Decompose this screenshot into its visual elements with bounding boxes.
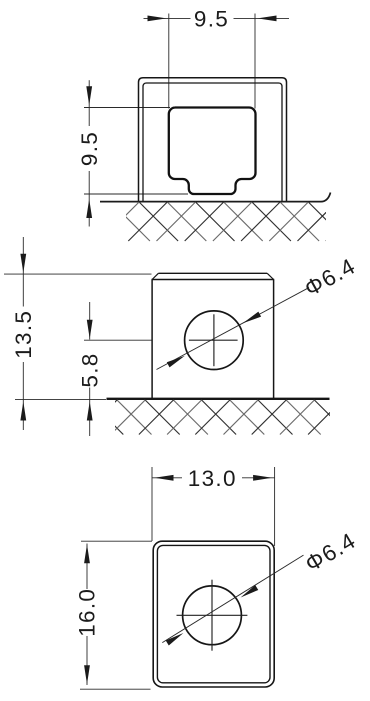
svg-text:13.5: 13.5: [11, 310, 36, 359]
svg-text:Φ6.4: Φ6.4: [300, 253, 360, 301]
svg-text:9.5: 9.5: [77, 131, 102, 166]
dimension 13.0 (width): [152, 466, 275, 546]
dimension 5.8 (hole center height): [77, 302, 151, 436]
svg-text:Φ6.4: Φ6.4: [301, 528, 361, 577]
center marks (view 3): [177, 614, 248, 616]
leader line to hole diameter (view 3): [162, 555, 303, 643]
jack shell outer wall: [139, 78, 287, 202]
dimension 9.5 (opening height, left): [77, 80, 188, 226]
svg-text:13.0: 13.0: [188, 466, 237, 491]
dimension 16.0 (height): [75, 541, 152, 689]
leader line to hole diameter (view 2): [157, 288, 310, 370]
PCB surface line (view 2): [107, 398, 330, 400]
hole circle (view 2): [185, 311, 244, 370]
jack opening profile (bold): [169, 108, 256, 195]
jack shell inner wall: [143, 83, 282, 202]
dimension 13.5 (block height): [4, 237, 152, 430]
PCB cross-hatch (view 1): [44, 202, 370, 241]
block body (side view): [152, 273, 275, 398]
PCB cross-hatch (view 2): [54, 400, 370, 435]
center marks (view 2): [189, 339, 238, 341]
dimension 9.5 (top width): [144, 7, 290, 109]
base plate inner outline: [157, 545, 270, 682]
VIEW 2: side view of block with hole on PCB: [4, 237, 370, 436]
svg-text:16.0: 16.0: [75, 588, 100, 637]
PCB surface line (view 1): [100, 193, 331, 202]
VIEW 1: front view of shielded jack on PCB: [44, 7, 370, 241]
base plate outer outline: [153, 541, 274, 687]
VIEW 3: bottom view, rounded rectangle with hole: [75, 466, 361, 689]
svg-text:5.8: 5.8: [77, 352, 102, 387]
extension line at PCB level (view 2): [15, 399, 106, 401]
svg-text:9.5: 9.5: [194, 7, 229, 32]
hole circle (view 3): [183, 586, 242, 645]
